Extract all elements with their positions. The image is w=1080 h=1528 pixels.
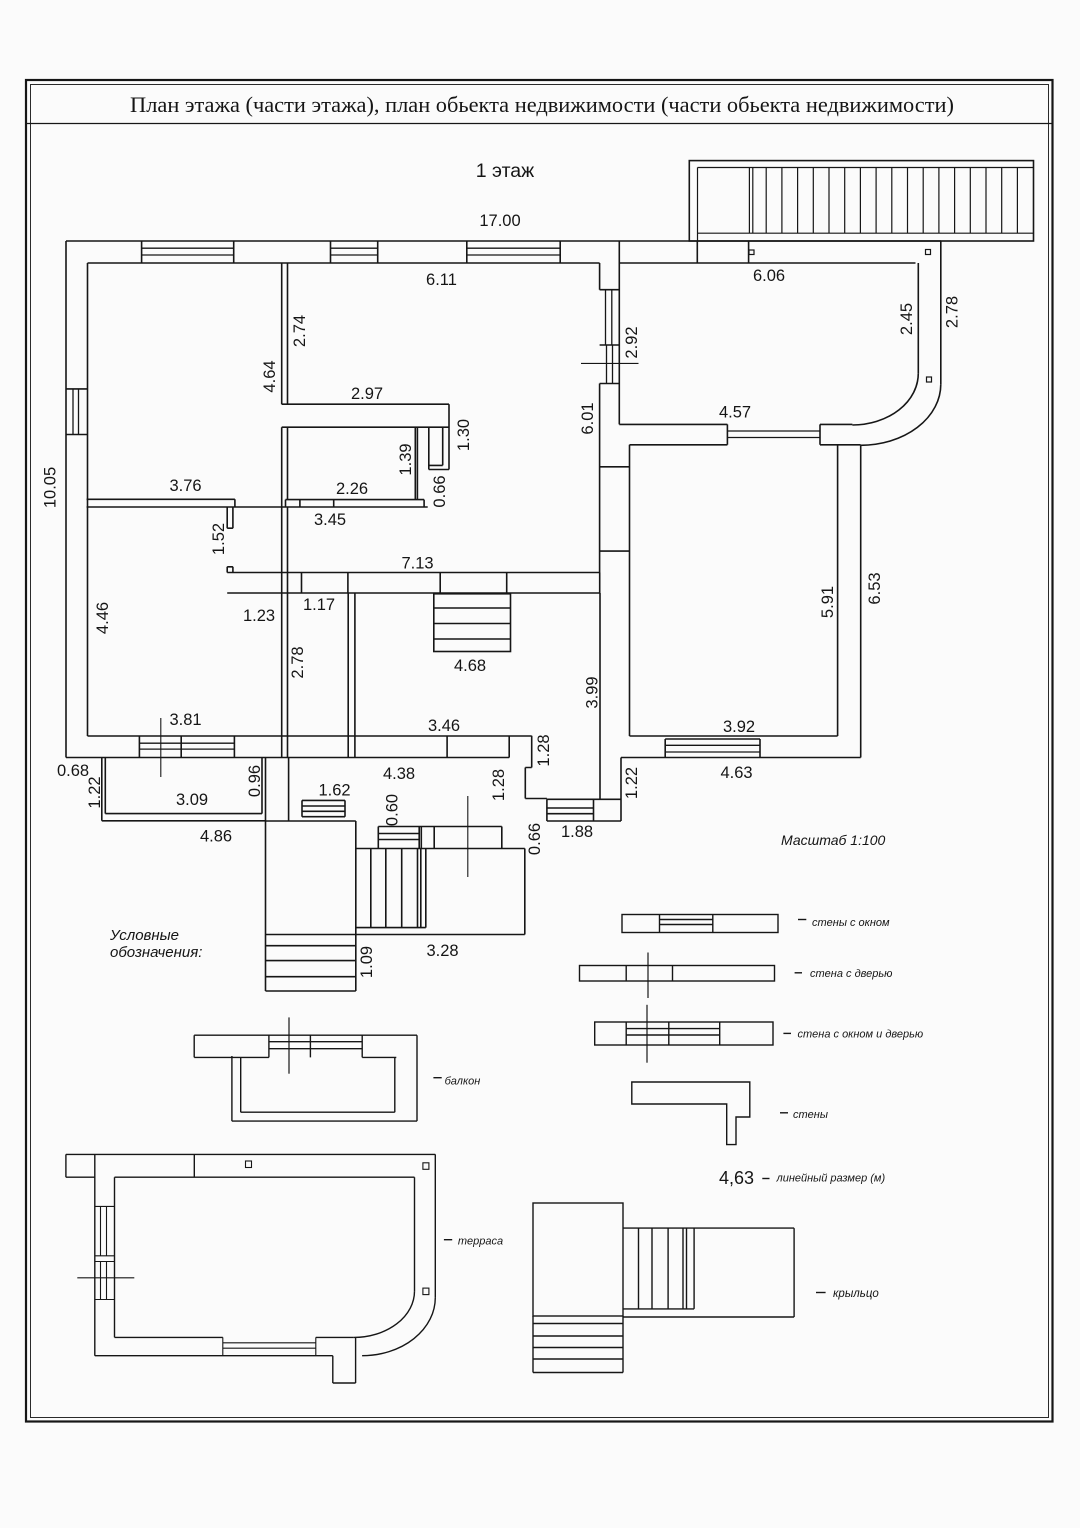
legend balcony dim line: [288, 1017, 290, 1073]
svg-text:2.26: 2.26: [336, 480, 368, 498]
svg-text:3.09: 3.09: [176, 791, 208, 809]
legend terrace top wall: [66, 1154, 435, 1177]
wall 1.52 lower stub: [227, 567, 233, 573]
svg-text:2.97: 2.97: [351, 385, 383, 403]
svg-text:1.88: 1.88: [561, 823, 593, 841]
window glazing 3.81: [139, 743, 234, 749]
entry stair outer box: [689, 161, 1033, 241]
svg-text:стена с окном и дверью: стена с окном и дверью: [798, 1029, 924, 1041]
svg-text:Условные: Условные: [109, 927, 179, 944]
svg-text:2.92: 2.92: [623, 326, 641, 358]
wall mid vertical left line: [599, 263, 601, 573]
svg-text:4.46: 4.46: [94, 602, 112, 634]
entry stair treads: [766, 168, 1017, 234]
legend wall-window-door symbol: [595, 1022, 773, 1045]
legend terrace left windows: [95, 1206, 115, 1299]
svg-text:0.68: 0.68: [57, 762, 89, 780]
legend terrace bottom window: [223, 1337, 316, 1355]
svg-text:6.11: 6.11: [426, 271, 457, 289]
svg-text:10.05: 10.05: [41, 467, 59, 508]
porch divider tick: [433, 827, 435, 849]
entry stair inner lines: [698, 168, 1034, 242]
svg-text:3.45: 3.45: [314, 511, 346, 529]
svg-text:7.13: 7.13: [401, 555, 433, 573]
window glazing 4.57: [727, 431, 820, 438]
svg-text:2.45: 2.45: [898, 303, 916, 335]
svg-text:4.86: 4.86: [200, 828, 232, 846]
window top-3: [467, 241, 560, 263]
vestibule jog contour: [525, 736, 547, 799]
wire: bottom wall inner line: [88, 735, 532, 737]
svg-text:обозначения:: обозначения:: [110, 944, 202, 961]
window glazing top-3: [467, 248, 560, 255]
svg-text:крыльцо: крыльцо: [833, 1288, 879, 1300]
svg-text:стена с дверью: стена с дверью: [810, 968, 892, 980]
legend porch stair treads: [623, 1228, 694, 1309]
svg-text:1.22: 1.22: [86, 776, 104, 808]
step block 0.60: [378, 827, 421, 849]
svg-text:1.28: 1.28: [490, 769, 508, 801]
svg-text:4,63: 4,63: [719, 1168, 754, 1188]
wall mid joint ticks: [600, 467, 630, 551]
svg-text:4.38: 4.38: [383, 765, 415, 783]
porch bottom edge: [266, 934, 525, 936]
legend porch lower steps: [533, 1316, 623, 1373]
porch stairs treads: [356, 849, 426, 928]
wire: bottom wall outer line: [66, 757, 509, 759]
terrace top line: [266, 820, 356, 822]
svg-text:1.17: 1.17: [303, 596, 335, 614]
svg-text:5.91: 5.91: [819, 586, 837, 618]
column post B: [926, 250, 931, 255]
wire: top wall inner line left section: [88, 262, 600, 264]
leader line 2.92: [581, 362, 639, 364]
svg-text:6.01: 6.01: [579, 402, 597, 434]
legend walls symbol: [632, 1082, 750, 1145]
column post C: [927, 377, 932, 382]
staircase internal treads: [434, 608, 511, 639]
wall mid vertical right line: [618, 241, 620, 424]
window 3.92: [665, 739, 760, 758]
legend terrace bottom wall: [95, 1337, 354, 1355]
column post A: [749, 250, 754, 255]
terrace left column edge: [265, 758, 267, 992]
bottom wall joint ticks: [282, 736, 510, 758]
wall hall right vertical: [600, 593, 621, 799]
legend dash linear size: [762, 1178, 769, 1180]
legend dash porch: [816, 1292, 826, 1294]
svg-text:4.64: 4.64: [261, 360, 279, 392]
legend terrace posts: [246, 1161, 252, 1168]
room 5.91 left wall: [629, 445, 631, 736]
title separator line: [26, 123, 1053, 125]
svg-text:3.92: 3.92: [723, 718, 755, 736]
wall nook right outer: [448, 404, 450, 469]
legend balcony rail inner: [241, 1057, 395, 1112]
svg-text:4.63: 4.63: [720, 764, 752, 782]
svg-text:6.06: 6.06: [753, 267, 785, 285]
porch top edge: [378, 827, 502, 849]
window glazing top-2: [331, 248, 378, 255]
wall nook caps: [429, 465, 449, 469]
legend porch left block: [533, 1203, 623, 1316]
wall T right of room 5.91: [838, 445, 861, 758]
legend dash terrace: [444, 1239, 452, 1241]
wall 1.22 exit side: [620, 758, 622, 822]
legend balcony window: [269, 1035, 362, 1057]
svg-text:1.30: 1.30: [455, 419, 473, 451]
entry stair landing divider: [749, 168, 752, 234]
legend terrace dim line: [77, 1277, 134, 1279]
room 5.91 bottom inner: [630, 735, 838, 737]
window mid-wall caps: [600, 290, 620, 384]
svg-text:1.23: 1.23: [243, 607, 275, 625]
wall W3 top line: [87, 498, 235, 500]
svg-text:1 этаж: 1 этаж: [476, 160, 534, 182]
legend balcony rail outer: [232, 1035, 417, 1121]
legend terrace top stub: [66, 1154, 95, 1177]
svg-text:0.66: 0.66: [526, 823, 544, 855]
window left-wall caps: [66, 389, 88, 435]
svg-text:2.78: 2.78: [943, 296, 961, 328]
wall corridor 2.78: [348, 593, 355, 736]
terrace lower steps: [266, 946, 356, 991]
legend wall-with-door symbol: [580, 966, 775, 982]
window top-1: [142, 241, 234, 263]
legend terrace exit stub: [333, 1337, 356, 1383]
svg-text:3.46: 3.46: [428, 717, 460, 735]
legend dash walls-with-window: [798, 919, 806, 921]
wall 1.52 upper stub: [227, 507, 233, 528]
wall W3 bottom line: [87, 506, 428, 508]
wall closet right: [415, 427, 417, 499]
svg-text:1.39: 1.39: [397, 443, 415, 475]
svg-text:3.28: 3.28: [426, 942, 458, 960]
wall W1 upper: [282, 263, 288, 404]
closet bottom line: [286, 499, 425, 501]
exit door steps: [547, 799, 621, 821]
svg-text:1.52: 1.52: [210, 523, 228, 555]
svg-text:1.09: 1.09: [358, 946, 376, 978]
wall nook shaft: [429, 427, 443, 469]
legend porch platform: [623, 1228, 794, 1317]
window glazing top-1: [142, 248, 234, 255]
svg-text:3.76: 3.76: [169, 477, 201, 495]
svg-text:0.96: 0.96: [246, 765, 264, 797]
svg-text:балкон: балкон: [445, 1076, 481, 1088]
svg-text:1.28: 1.28: [535, 734, 553, 766]
svg-text:терраса: терраса: [458, 1236, 503, 1248]
dim tick 0.60: [467, 796, 469, 877]
legend terrace right wall: [415, 1154, 436, 1297]
porch west edge: [288, 758, 290, 822]
wire: left exterior wall inner: [87, 263, 89, 736]
terrace corner arc inner: [852, 373, 918, 425]
terrace right wall inner: [917, 263, 919, 373]
legend terrace arcs: [354, 1291, 436, 1356]
terrace bottom wall lines: [619, 424, 860, 444]
legend balcony wall bar: [194, 1035, 417, 1057]
svg-text:4.68: 4.68: [454, 657, 486, 675]
svg-text:3.99: 3.99: [583, 676, 601, 708]
porch mid edge: [356, 849, 525, 935]
svg-text:0.66: 0.66: [431, 475, 449, 507]
svg-text:стены: стены: [793, 1109, 828, 1121]
terrace corner arc outer: [861, 384, 941, 445]
window glazing mid-wall: [606, 290, 613, 384]
terrace top band dividers: [697, 241, 748, 263]
wire: top wall inner line terrace section: [619, 262, 915, 264]
wall W1 lower part above band: [287, 427, 289, 499]
svg-text:4.57: 4.57: [719, 404, 751, 422]
svg-text:17.00: 17.00: [479, 212, 520, 230]
window 3.81 caps: [139, 736, 234, 758]
legend dash wall-window-door: [783, 1032, 791, 1034]
legend dash walls: [780, 1112, 788, 1114]
svg-text:2.78: 2.78: [289, 646, 307, 678]
terrace right wall outer: [940, 241, 942, 384]
balcony outline: [102, 758, 266, 821]
wire: left exterior wall outer: [65, 241, 67, 758]
wall 7.13 dividers: [302, 573, 507, 594]
svg-text:6.53: 6.53: [866, 572, 884, 604]
svg-text:План этажа (части этажа), план: План этажа (части этажа), план обьекта н…: [130, 92, 954, 117]
svg-text:3.81: 3.81: [169, 711, 201, 729]
legend dash balcony: [433, 1077, 441, 1079]
svg-text:0.60: 0.60: [383, 794, 401, 826]
staircase internal box: [434, 594, 511, 652]
svg-text:1.62: 1.62: [318, 782, 350, 800]
wall W2 horizontal thick: [282, 404, 449, 427]
wall W3 ticks: [235, 499, 424, 507]
wall 7.13 band: [227, 573, 600, 594]
legend dash wall-door: [795, 972, 802, 974]
wire: top exterior wall outer line: [66, 240, 941, 242]
terrace inner edge: [355, 821, 357, 991]
legend walls-with-window symbol: [622, 915, 778, 933]
window glazing 3.92: [665, 745, 760, 752]
svg-text:2.74: 2.74: [291, 315, 309, 347]
window glazing left wall: [73, 389, 79, 435]
svg-text:Масштаб 1:100: Масштаб 1:100: [781, 832, 886, 848]
step block 1.62: [302, 800, 345, 816]
svg-text:линейный размер (м): линейный размер (м): [776, 1173, 886, 1185]
legend terrace left wall: [95, 1154, 115, 1355]
svg-text:1.22: 1.22: [623, 767, 641, 799]
wall W1b lower: [282, 427, 288, 736]
window 4.57 caps: [727, 424, 820, 444]
svg-text:стены с окном: стены с окном: [812, 917, 890, 929]
dim tick 3.81: [160, 718, 162, 777]
window top-2: [331, 241, 378, 263]
wire: right section bottom outer: [621, 757, 861, 759]
